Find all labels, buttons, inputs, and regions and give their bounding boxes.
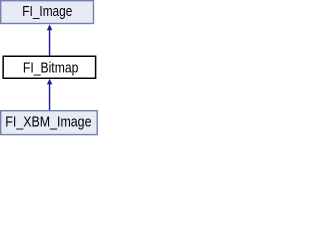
svg-text:FI_Image: FI_Image [22, 4, 72, 20]
node FI_Bitmap (current class box) [3, 56, 95, 78]
node FI_XBM_Image (derived class box) [1, 111, 98, 135]
inheritance arrow FI_Bitmap to FI_Image: wire [49, 29, 51, 56]
inheritance arrow FI_XBM_Image to FI_Bitmap: arrowhead [47, 79, 53, 85]
node FI_Image (base class box) [1, 1, 94, 24]
inheritance arrow FI_Bitmap to FI_Image: arrowhead [47, 24, 53, 30]
inheritance arrow FI_XBM_Image to FI_Bitmap: wire [49, 83, 51, 111]
svg-text:FI_XBM_Image: FI_XBM_Image [5, 114, 91, 130]
svg-text:FI_Bitmap: FI_Bitmap [23, 61, 79, 77]
